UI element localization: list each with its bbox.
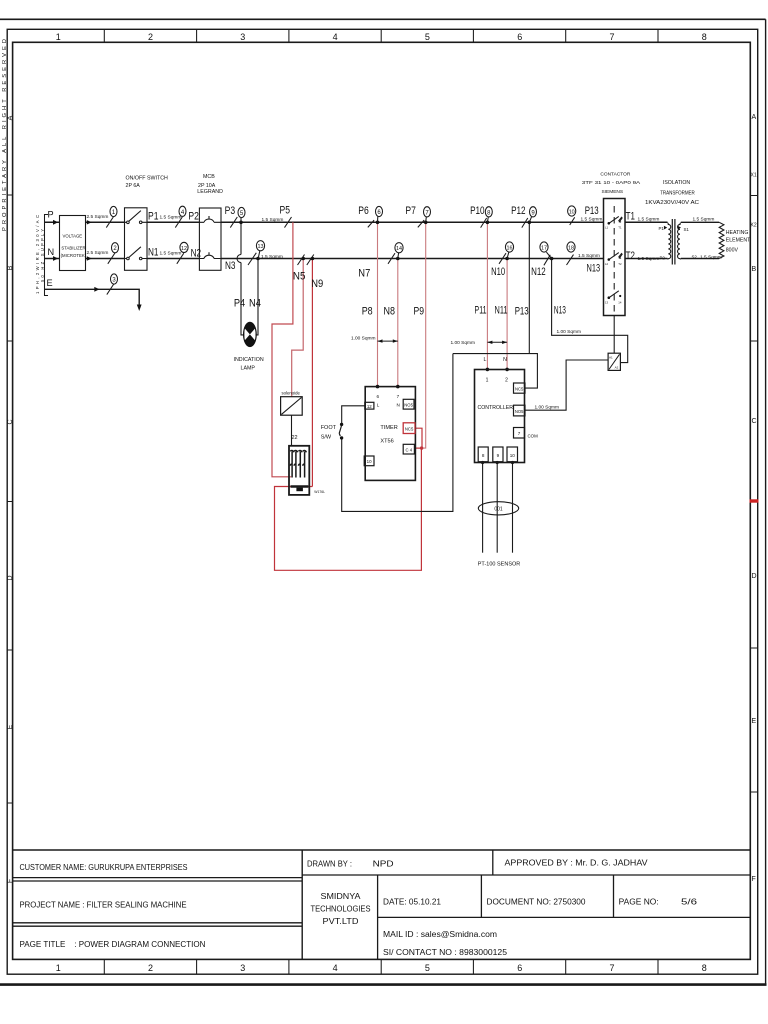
wire P12 P13 black net to controller NC5 and foot switch [342, 222, 538, 511]
ruler ticks right band [750, 196, 757, 793]
heating element zigzag [719, 222, 724, 258]
contactor aux contact [609, 291, 619, 298]
svg-text:N13: N13 [587, 262, 601, 274]
svg-text:6: 6 [517, 963, 522, 973]
svg-text:001: 001 [494, 507, 503, 513]
on-off switch caption [126, 175, 169, 189]
ruler ticks left band [7, 195, 12, 803]
svg-text:P11: P11 [475, 305, 487, 317]
svg-text:D: D [7, 575, 14, 580]
svg-text:X1: X1 [751, 173, 757, 179]
svg-text:P1: P1 [659, 226, 665, 231]
svg-text:T1: T1 [618, 226, 622, 230]
wire tag 17 [540, 242, 552, 265]
wire tag 4 [175, 206, 186, 227]
wire N5 red to solenoid [292, 259, 304, 397]
wire N8 red to timer N [397, 259, 399, 387]
wire tag 14 [388, 243, 403, 264]
svg-text:10: 10 [367, 459, 372, 464]
title block top line [13, 849, 751, 851]
controller pins 8 9 10 [478, 447, 488, 462]
wire timer NC5 loop red [414, 428, 422, 448]
svg-text:N2: N2 [191, 248, 202, 260]
controller pin NC5 [514, 383, 526, 393]
svg-text:17: 17 [541, 246, 547, 252]
svg-text:N7: N7 [358, 268, 370, 280]
svg-text:6: 6 [377, 394, 380, 399]
svg-text:P2: P2 [660, 255, 666, 260]
svg-text:NPD: NPD [373, 860, 394, 869]
svg-text:DOCUMENT NO: 2750300: DOCUMENT NO: 2750300 [487, 898, 586, 907]
svg-text:XT56: XT56 [380, 438, 393, 444]
svg-text:1.5 Sqmm: 1.5 Sqmm [160, 251, 182, 257]
wire N11 red to controller N [506, 259, 508, 370]
svg-text:2: 2 [148, 32, 153, 42]
svg-text:ISOLATION: ISOLATION [663, 180, 691, 186]
wire N4 drop to lamp [256, 259, 258, 335]
svg-text:P4: P4 [234, 298, 245, 310]
foot switch [339, 426, 341, 436]
svg-text:SMIDNYA: SMIDNYA [321, 892, 362, 901]
timer dimension arrows 1.00 Sqmm [378, 340, 398, 342]
svg-text:P5: P5 [280, 205, 291, 217]
svg-text:22: 22 [292, 435, 298, 441]
svg-text:DATE: 05.10.21: DATE: 05.10.21 [383, 898, 441, 907]
svg-text:8: 8 [702, 963, 707, 973]
wire tag 3 [107, 274, 118, 295]
wire tag 8 [481, 207, 493, 228]
svg-text:3: 3 [240, 963, 245, 973]
wire tag 6 [368, 206, 383, 227]
solenoid coil [281, 397, 303, 416]
svg-text:A: A [752, 114, 757, 121]
wire contactor to coil dashed link [613, 206, 615, 316]
svg-text:E: E [47, 278, 53, 288]
timer pin labels 6 L 7 N [377, 394, 400, 407]
title block divider document-page [613, 875, 615, 917]
slash N5 [298, 255, 305, 266]
svg-text:1.00 Sqmm: 1.00 Sqmm [451, 340, 476, 346]
junction red NC5 C4 [420, 446, 423, 449]
wire tag 5 [230, 207, 245, 227]
svg-text:VOLTAGE: VOLTAGE [63, 234, 83, 239]
svg-text:L: L [377, 402, 380, 407]
svg-text:N1: N1 [148, 247, 159, 259]
voltage stabilizer box [60, 216, 86, 271]
svg-text:P8: P8 [362, 306, 373, 318]
svg-text:S/W: S/W [321, 435, 332, 441]
company name text [311, 892, 371, 926]
winding arrow S1 [678, 226, 681, 230]
svg-text:P1: P1 [148, 210, 159, 222]
svg-text:T2: T2 [626, 250, 635, 262]
svg-text:F: F [752, 876, 756, 883]
svg-text:PT-100 SENSOR: PT-100 SENSOR [478, 562, 521, 568]
wire coil link solid [613, 316, 615, 354]
svg-text:N: N [503, 357, 507, 363]
wire tag 13 [248, 241, 265, 265]
wire E [45, 289, 140, 304]
MCB box [199, 208, 221, 270]
svg-text:TRANSFORMER: TRANSFORMER [660, 190, 695, 196]
transformer terminal labels [659, 226, 698, 260]
svg-text:NC5: NC5 [515, 387, 524, 392]
svg-text:5: 5 [425, 32, 430, 42]
wire N9 red net to timer C4 junction [275, 259, 422, 571]
svg-text:D: D [752, 573, 757, 580]
svg-text:K2: K2 [751, 223, 757, 229]
timer XT56 box [365, 387, 415, 481]
arrow on P wire [53, 220, 58, 225]
timer pin 12 [365, 402, 374, 409]
timer pin C4 [403, 444, 414, 454]
contactor K1 box [604, 199, 626, 316]
wire P9 red to NC5 junction [421, 222, 425, 448]
svg-text:800V: 800V [726, 247, 739, 253]
timer captions [380, 425, 397, 444]
svg-text:1: 1 [486, 378, 489, 384]
svg-text:A2: A2 [615, 366, 619, 370]
svg-text:TECHNOLOGIES: TECHNOLOGIES [311, 905, 371, 914]
svg-text:S1: S1 [684, 227, 690, 232]
svg-text:7: 7 [609, 32, 614, 42]
svg-text:NO5: NO5 [404, 402, 413, 407]
svg-text:APPROVED BY : Mr. D. G. JADHAV: APPROVED BY : Mr. D. G. JADHAV [505, 859, 649, 868]
svg-text:TIMER: TIMER [380, 425, 397, 431]
arrow E down to earth [137, 305, 142, 312]
svg-text:T2: T2 [618, 262, 622, 266]
title block row line right 2 [378, 916, 751, 918]
wire P11 red to controller L [486, 222, 488, 369]
svg-text:HEATING: HEATING [726, 230, 749, 236]
svg-text:1: 1 [56, 32, 61, 42]
svg-text:PAGE TITLE : POWER DIAGRAM: PAGE TITLE : POWER DIAGRAM CONNECTION [20, 940, 206, 949]
contactor coil A1 A2 [608, 353, 620, 370]
indication lamp caption [234, 357, 264, 372]
timer pin NC5 red [403, 423, 415, 434]
svg-text:LAMP: LAMP [241, 366, 256, 372]
contactor pole N contact [609, 253, 623, 260]
controller dimension arrows 1.00 Sqmm [487, 341, 507, 343]
wire P4 drop to lamp [241, 222, 244, 335]
svg-text:C: C [7, 419, 14, 424]
svg-text:P3: P3 [225, 205, 236, 217]
controller pin NO5 [514, 405, 526, 416]
svg-text:ON/OFF SWITCH: ON/OFF SWITCH [126, 175, 169, 181]
svg-text:1.00 Sqmm: 1.00 Sqmm [557, 329, 582, 335]
title block divider main [301, 850, 303, 959]
zone letters left [7, 115, 14, 883]
wire sensor 8 [482, 463, 484, 553]
on-off switch S1 box [125, 208, 148, 270]
svg-text:1.00 Sqmm: 1.00 Sqmm [351, 336, 376, 342]
arrow on N wire after stabilizer [87, 256, 92, 260]
svg-text:7: 7 [518, 431, 521, 436]
svg-text:N10: N10 [491, 266, 505, 278]
svg-text:N3: N3 [225, 260, 236, 272]
svg-text:12: 12 [367, 404, 372, 409]
wire tag 9 [522, 207, 537, 228]
contact block bottom bar [291, 485, 309, 488]
arrow on N wire [53, 256, 58, 261]
wire tag 16 [499, 242, 514, 264]
svg-text:14: 14 [618, 300, 622, 304]
arrow on P wire after stabilizer [87, 220, 92, 224]
border paper edge right [765, 19, 767, 984]
svg-text:L2: L2 [605, 262, 609, 266]
timer pin NO5 [403, 399, 414, 409]
svg-text:solenoide: solenoide [282, 391, 301, 396]
svg-text:FOOT: FOOT [321, 425, 337, 431]
wire P5 red net to contact block [272, 222, 293, 476]
wire N bus [45, 258, 668, 260]
svg-text:PVT.LTD: PVT.LTD [323, 917, 359, 926]
svg-text:SI/ CONTACT NO : 8983000125: SI/ CONTACT NO : 8983000125 [383, 948, 508, 957]
svg-text:STABILIZER: STABILIZER [61, 246, 85, 251]
svg-text:C 4: C 4 [406, 447, 413, 452]
ruler numbers top [56, 32, 707, 42]
svg-text:1.5 Sqmm: 1.5 Sqmm [578, 253, 600, 259]
svg-text:DRAWN BY :: DRAWN BY : [307, 860, 352, 869]
svg-text:1.5 Sqmm: 1.5 Sqmm [638, 217, 660, 223]
svg-text:P13: P13 [515, 306, 529, 318]
relay contact block 22 [289, 446, 309, 495]
wire tag 2 [108, 243, 119, 264]
svg-text:N11: N11 [495, 305, 508, 317]
transformer primary winding [668, 223, 671, 259]
svg-text:E: E [7, 724, 14, 729]
svg-text:N: N [48, 247, 55, 257]
svg-text:C: C [752, 418, 757, 425]
switch pole P contact [125, 211, 148, 223]
wire solenoid to contact block [291, 415, 293, 446]
svg-text:B: B [7, 265, 14, 270]
slash N9 [307, 255, 314, 266]
svg-text:2: 2 [505, 378, 508, 384]
wire tag 1 [106, 206, 117, 227]
svg-text:P13: P13 [585, 205, 599, 217]
svg-text:L1: L1 [605, 226, 609, 230]
timer pin 10 [364, 456, 374, 466]
svg-text:PROJECT NAME : FILTER SEALING: PROJECT NAME : FILTER SEALING MACHINE [20, 901, 188, 910]
wire sensor 9 [496, 463, 498, 553]
MCB caption [197, 174, 223, 195]
secondary wires to heater [681, 222, 719, 258]
foot switch caption [321, 425, 337, 441]
svg-text:P2: P2 [188, 210, 199, 222]
svg-text:NO5: NO5 [515, 409, 524, 414]
svg-text:CONTROLLER: CONTROLLER [478, 405, 514, 411]
svg-text:W176L: W176L [314, 490, 325, 494]
svg-text:8: 8 [482, 453, 485, 458]
border paper edge top [0, 18, 766, 20]
svg-text:P7: P7 [405, 205, 416, 217]
svg-text:13: 13 [605, 300, 609, 304]
transformer core [672, 219, 675, 265]
svg-text:PAGE NO:: PAGE NO: [619, 898, 659, 907]
svg-text:3TF 31 10 - 0AP0 9A: 3TF 31 10 - 0AP0 9A [582, 180, 641, 186]
svg-text:E: E [752, 718, 757, 725]
svg-text:5/6: 5/6 [681, 898, 698, 907]
wire tag 12 [177, 242, 188, 264]
svg-text:B: B [752, 266, 757, 273]
MCB pole P [199, 216, 221, 222]
arrow on E wire [94, 287, 99, 292]
svg-text:N4: N4 [249, 298, 261, 310]
wire tag 7 [418, 207, 431, 228]
svg-text:2.5 Sqmm: 2.5 Sqmm [87, 250, 109, 256]
indication lamp [244, 322, 257, 346]
contactor pole P contact [609, 216, 623, 223]
svg-text:5: 5 [425, 963, 430, 973]
wire tag 10 [568, 206, 576, 225]
svg-text:(MICROTEK): (MICROTEK) [61, 253, 87, 258]
title block divider date-document [480, 875, 482, 917]
wire NO5 to coil A1 [525, 360, 608, 410]
svg-text:MCB: MCB [203, 174, 215, 180]
svg-text:LEGRAND: LEGRAND [197, 189, 223, 195]
ruler numbers bottom [56, 963, 707, 973]
wire hop P4 over N bus [237, 255, 241, 263]
isolation transformer caption [645, 180, 699, 206]
svg-text:2: 2 [148, 963, 153, 973]
sensor cable ellipse 001 [478, 502, 518, 515]
red revision tick right band [750, 499, 759, 502]
heating element caption [726, 230, 751, 254]
svg-text:N9: N9 [311, 278, 323, 290]
ruler ticks top band [104, 29, 658, 42]
winding arrow P1 [664, 226, 667, 230]
svg-text:L: L [484, 357, 487, 363]
svg-text:N5: N5 [293, 271, 306, 283]
controller pin 7 [514, 428, 525, 439]
transformer secondary winding [678, 223, 681, 259]
svg-text:2.5 Sqmm: 2.5 Sqmm [87, 214, 109, 220]
svg-text:P9: P9 [414, 306, 425, 318]
svg-text:18: 18 [568, 246, 574, 252]
svg-text:N8: N8 [384, 306, 396, 318]
svg-text:1.5 Sqmm: 1.5 Sqmm [262, 217, 284, 223]
svg-text:CUSTOMER NAME: GURUKRUPA ENTER: CUSTOMER NAME: GURUKRUPA ENTERPRISES [20, 863, 188, 872]
svg-text:A1: A1 [609, 355, 613, 359]
wire P bus [45, 221, 668, 223]
svg-text:12: 12 [181, 246, 187, 252]
controller box [475, 370, 525, 463]
junction dots P bus [239, 221, 531, 225]
svg-text:COM: COM [528, 434, 539, 439]
svg-text:1.5 Sqmm: 1.5 Sqmm [261, 254, 283, 260]
svg-text:9: 9 [497, 453, 500, 458]
switch pole N contact [125, 247, 148, 259]
svg-text:4: 4 [333, 32, 338, 42]
ruler ticks bottom band [104, 959, 658, 974]
svg-text:7: 7 [397, 394, 400, 399]
svg-text:7: 7 [609, 963, 614, 973]
title block row line left 2 [13, 923, 303, 926]
svg-text:P12: P12 [511, 205, 525, 217]
svg-text:N13: N13 [554, 305, 566, 317]
svg-text:N: N [397, 402, 400, 407]
svg-text:1.5 Sqmm: 1.5 Sqmm [700, 254, 722, 260]
svg-text:P: P [48, 210, 54, 220]
svg-text:1KVA230V//40V AC: 1KVA230V//40V AC [645, 200, 699, 206]
svg-text:SIEMENS: SIEMENS [602, 189, 624, 195]
svg-text:14: 14 [396, 246, 402, 252]
title block divider company cell [377, 875, 379, 959]
wire P8 red to timer L [377, 222, 379, 386]
svg-text:1.5 Sqmm: 1.5 Sqmm [160, 214, 182, 220]
svg-text:1.5 Sqmm: 1.5 Sqmm [693, 216, 715, 222]
slash P5 [285, 217, 292, 228]
contactor caption [582, 171, 641, 195]
svg-text:6: 6 [517, 32, 522, 42]
svg-text:NC5: NC5 [405, 427, 414, 432]
zone letters right [752, 114, 757, 883]
wire tag 18 [567, 242, 576, 265]
svg-text:T1: T1 [626, 211, 635, 223]
svg-text:10: 10 [569, 210, 575, 216]
svg-text:P10: P10 [470, 205, 485, 217]
wire N13 drop [552, 259, 628, 363]
contact block hooks [290, 451, 306, 478]
svg-text:13: 13 [258, 244, 264, 250]
controller terminals 1 2 [486, 378, 509, 384]
svg-text:P6: P6 [358, 205, 369, 217]
svg-text:1.5 Sqmm: 1.5 Sqmm [638, 256, 660, 262]
title block row line left 1 [13, 878, 303, 881]
junction dots N bus [256, 257, 553, 261]
svg-text:10: 10 [510, 453, 516, 458]
svg-text:N12: N12 [531, 266, 546, 278]
border paper edge bottom [0, 983, 767, 986]
junction dots component terminals [376, 368, 514, 465]
svg-text:3: 3 [240, 32, 245, 42]
svg-text:16: 16 [507, 246, 513, 252]
svg-text:4: 4 [333, 963, 338, 973]
svg-text:1.00 Sqmm: 1.00 Sqmm [535, 405, 560, 411]
title block row line right 1 [302, 874, 750, 876]
svg-text:INDICATION: INDICATION [234, 357, 264, 363]
wire sensor 10 [512, 463, 514, 553]
title block divider drawn-approved [492, 850, 494, 875]
svg-text:1.5 Sqmm: 1.5 Sqmm [581, 217, 603, 223]
MCB pole N [199, 252, 221, 258]
svg-text:MAIL ID : sales@Smidna.com: MAIL ID : sales@Smidna.com [383, 930, 497, 939]
supply bracket [45, 215, 49, 296]
svg-text:1: 1 [56, 963, 61, 973]
svg-text:ELEMENT: ELEMENT [726, 238, 751, 244]
svg-text:8: 8 [702, 32, 707, 42]
controller L N labels [484, 357, 508, 363]
svg-text:2P 6A: 2P 6A [126, 183, 141, 189]
svg-text:CONTACTOR: CONTACTOR [600, 171, 630, 177]
